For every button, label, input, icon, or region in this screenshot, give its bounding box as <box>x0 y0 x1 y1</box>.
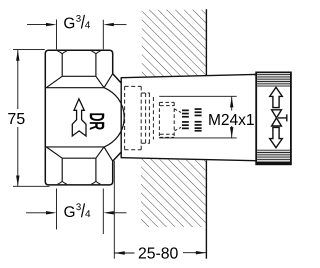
hidden collar (dashed verticals) <box>141 93 153 143</box>
dimension 75: vertical dimension line <box>17 50 19 186</box>
protection cap bottom knurl band <box>257 150 290 162</box>
cap valve handle tick <box>278 114 287 121</box>
cap down-arrow outline <box>270 127 283 147</box>
thread section bars group 2 <box>195 108 202 131</box>
dimension G3/4 bottom: text <box>64 203 90 217</box>
protection cap top knurl band <box>257 73 290 86</box>
dimension G3/4 bottom: right arrow <box>111 212 127 214</box>
wall hatch lower block <box>141 159 206 227</box>
dimension G3/4 top: left arrow <box>27 24 49 26</box>
valve body horizontal shoulder upper <box>45 87 104 89</box>
top hex nut facet lines <box>62 54 96 77</box>
dimension 75: arrowhead down <box>16 176 19 187</box>
bottom hex nut chamfer marks <box>58 181 101 184</box>
dimension G3/4 top: extension lines <box>57 20 104 50</box>
dimension 75: extension line bottom <box>13 185 50 187</box>
DR label (rotated) <box>90 113 104 129</box>
dimension 25-80: text <box>139 247 178 258</box>
dimension G3/4 top: right arrow <box>111 24 127 26</box>
mounting box left face <box>120 77 122 158</box>
protection cap body <box>256 72 291 164</box>
dimension M24x1: extension lines <box>159 96 237 138</box>
hidden cartridge sleeve (dashed rect A) <box>125 86 142 149</box>
bottom hex nut chamfer diagonals <box>46 147 113 161</box>
thread section bars group 1 <box>182 110 189 130</box>
wall hatch upper block <box>142 10 206 78</box>
protection cap bottom thick edge <box>256 162 291 165</box>
dimension 25-80: extension line <box>113 161 115 259</box>
dimension 75: extension line top <box>13 49 45 51</box>
valve body horizontal shoulder lower <box>45 146 104 148</box>
dimension 75: text <box>8 113 24 124</box>
flow direction arrow on valve <box>72 99 86 136</box>
wall finished-surface line lower <box>205 160 207 258</box>
dimension G3/4 top: text <box>64 15 90 29</box>
wall finished-surface line upper <box>205 9 207 75</box>
bottom hex nut facet lines <box>62 158 96 181</box>
hidden stem (dashed rect C) <box>159 102 174 137</box>
mounting box bottom edge <box>121 158 256 161</box>
cap up-arrow outline <box>270 87 283 107</box>
dimension M24x1: vertical line with arrows <box>231 97 233 138</box>
top hex nut chamfer marks <box>58 51 101 54</box>
dimension M24x1: text <box>209 114 254 125</box>
hidden thread leader hooks <box>175 109 182 131</box>
top hex nut chamfer diagonals <box>46 74 113 88</box>
dimension 75: arrowhead up <box>16 50 19 61</box>
dimension G3/4 bottom: left arrow <box>26 212 49 214</box>
valve body outline top half <box>45 50 121 185</box>
dimension 25-80: right arrow <box>183 252 206 254</box>
valve bore mouth bulge arc <box>104 88 124 147</box>
cap valve bowtie symbol <box>272 110 282 126</box>
mounting box top edge <box>121 74 256 77</box>
dimension G3/4 bottom: extension lines <box>57 189 104 235</box>
dimension 25-80: left arrow <box>114 252 134 254</box>
